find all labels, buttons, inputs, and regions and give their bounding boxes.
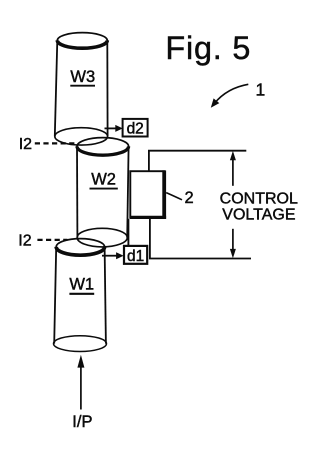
svg-text:I2: I2 xyxy=(18,233,31,250)
reference arrow to 1 xyxy=(211,84,249,108)
svg-text:CONTROL: CONTROL xyxy=(220,190,298,207)
dashed leader lower I2 xyxy=(37,239,67,241)
leader line to label 2 xyxy=(166,193,182,200)
svg-text:W2: W2 xyxy=(91,171,116,189)
cylinder W1 body xyxy=(54,239,106,344)
cylinder W3 bottom ellipse xyxy=(55,128,108,145)
component 2 box xyxy=(130,170,166,218)
control voltage dimension arrow lower segment xyxy=(230,229,236,258)
box d1 xyxy=(124,246,147,264)
cylinder W3 body xyxy=(55,33,108,137)
svg-text:d1: d1 xyxy=(127,248,144,265)
svg-text:Fig. 5: Fig. 5 xyxy=(165,30,251,66)
input arrow I/P xyxy=(77,355,84,410)
wire from box 2 bottom to control voltage bottom rail xyxy=(150,219,251,259)
arrow to d1 xyxy=(102,252,124,259)
svg-text:W1: W1 xyxy=(69,276,94,294)
svg-text:I2: I2 xyxy=(19,136,32,153)
svg-text:W3: W3 xyxy=(70,68,95,86)
svg-text:1: 1 xyxy=(256,80,266,100)
cylinder W2 body xyxy=(77,138,129,238)
control voltage dimension arrow upper segment xyxy=(230,151,236,186)
cylinder W1 bottom ellipse xyxy=(54,336,107,352)
svg-text:VOLTAGE: VOLTAGE xyxy=(222,206,295,223)
dashed leader upper I2 xyxy=(35,142,76,144)
box d2 xyxy=(123,119,148,137)
arrow to d2 xyxy=(105,125,123,132)
svg-text:d2: d2 xyxy=(127,121,144,138)
cylinder W2 bottom ellipse xyxy=(77,228,127,247)
svg-text:I/P: I/P xyxy=(72,413,92,431)
wire from box 2 top to control voltage top rail xyxy=(149,151,246,171)
svg-text:2: 2 xyxy=(185,189,194,207)
wire from box 2 bottom-left down to d1 xyxy=(127,219,129,246)
